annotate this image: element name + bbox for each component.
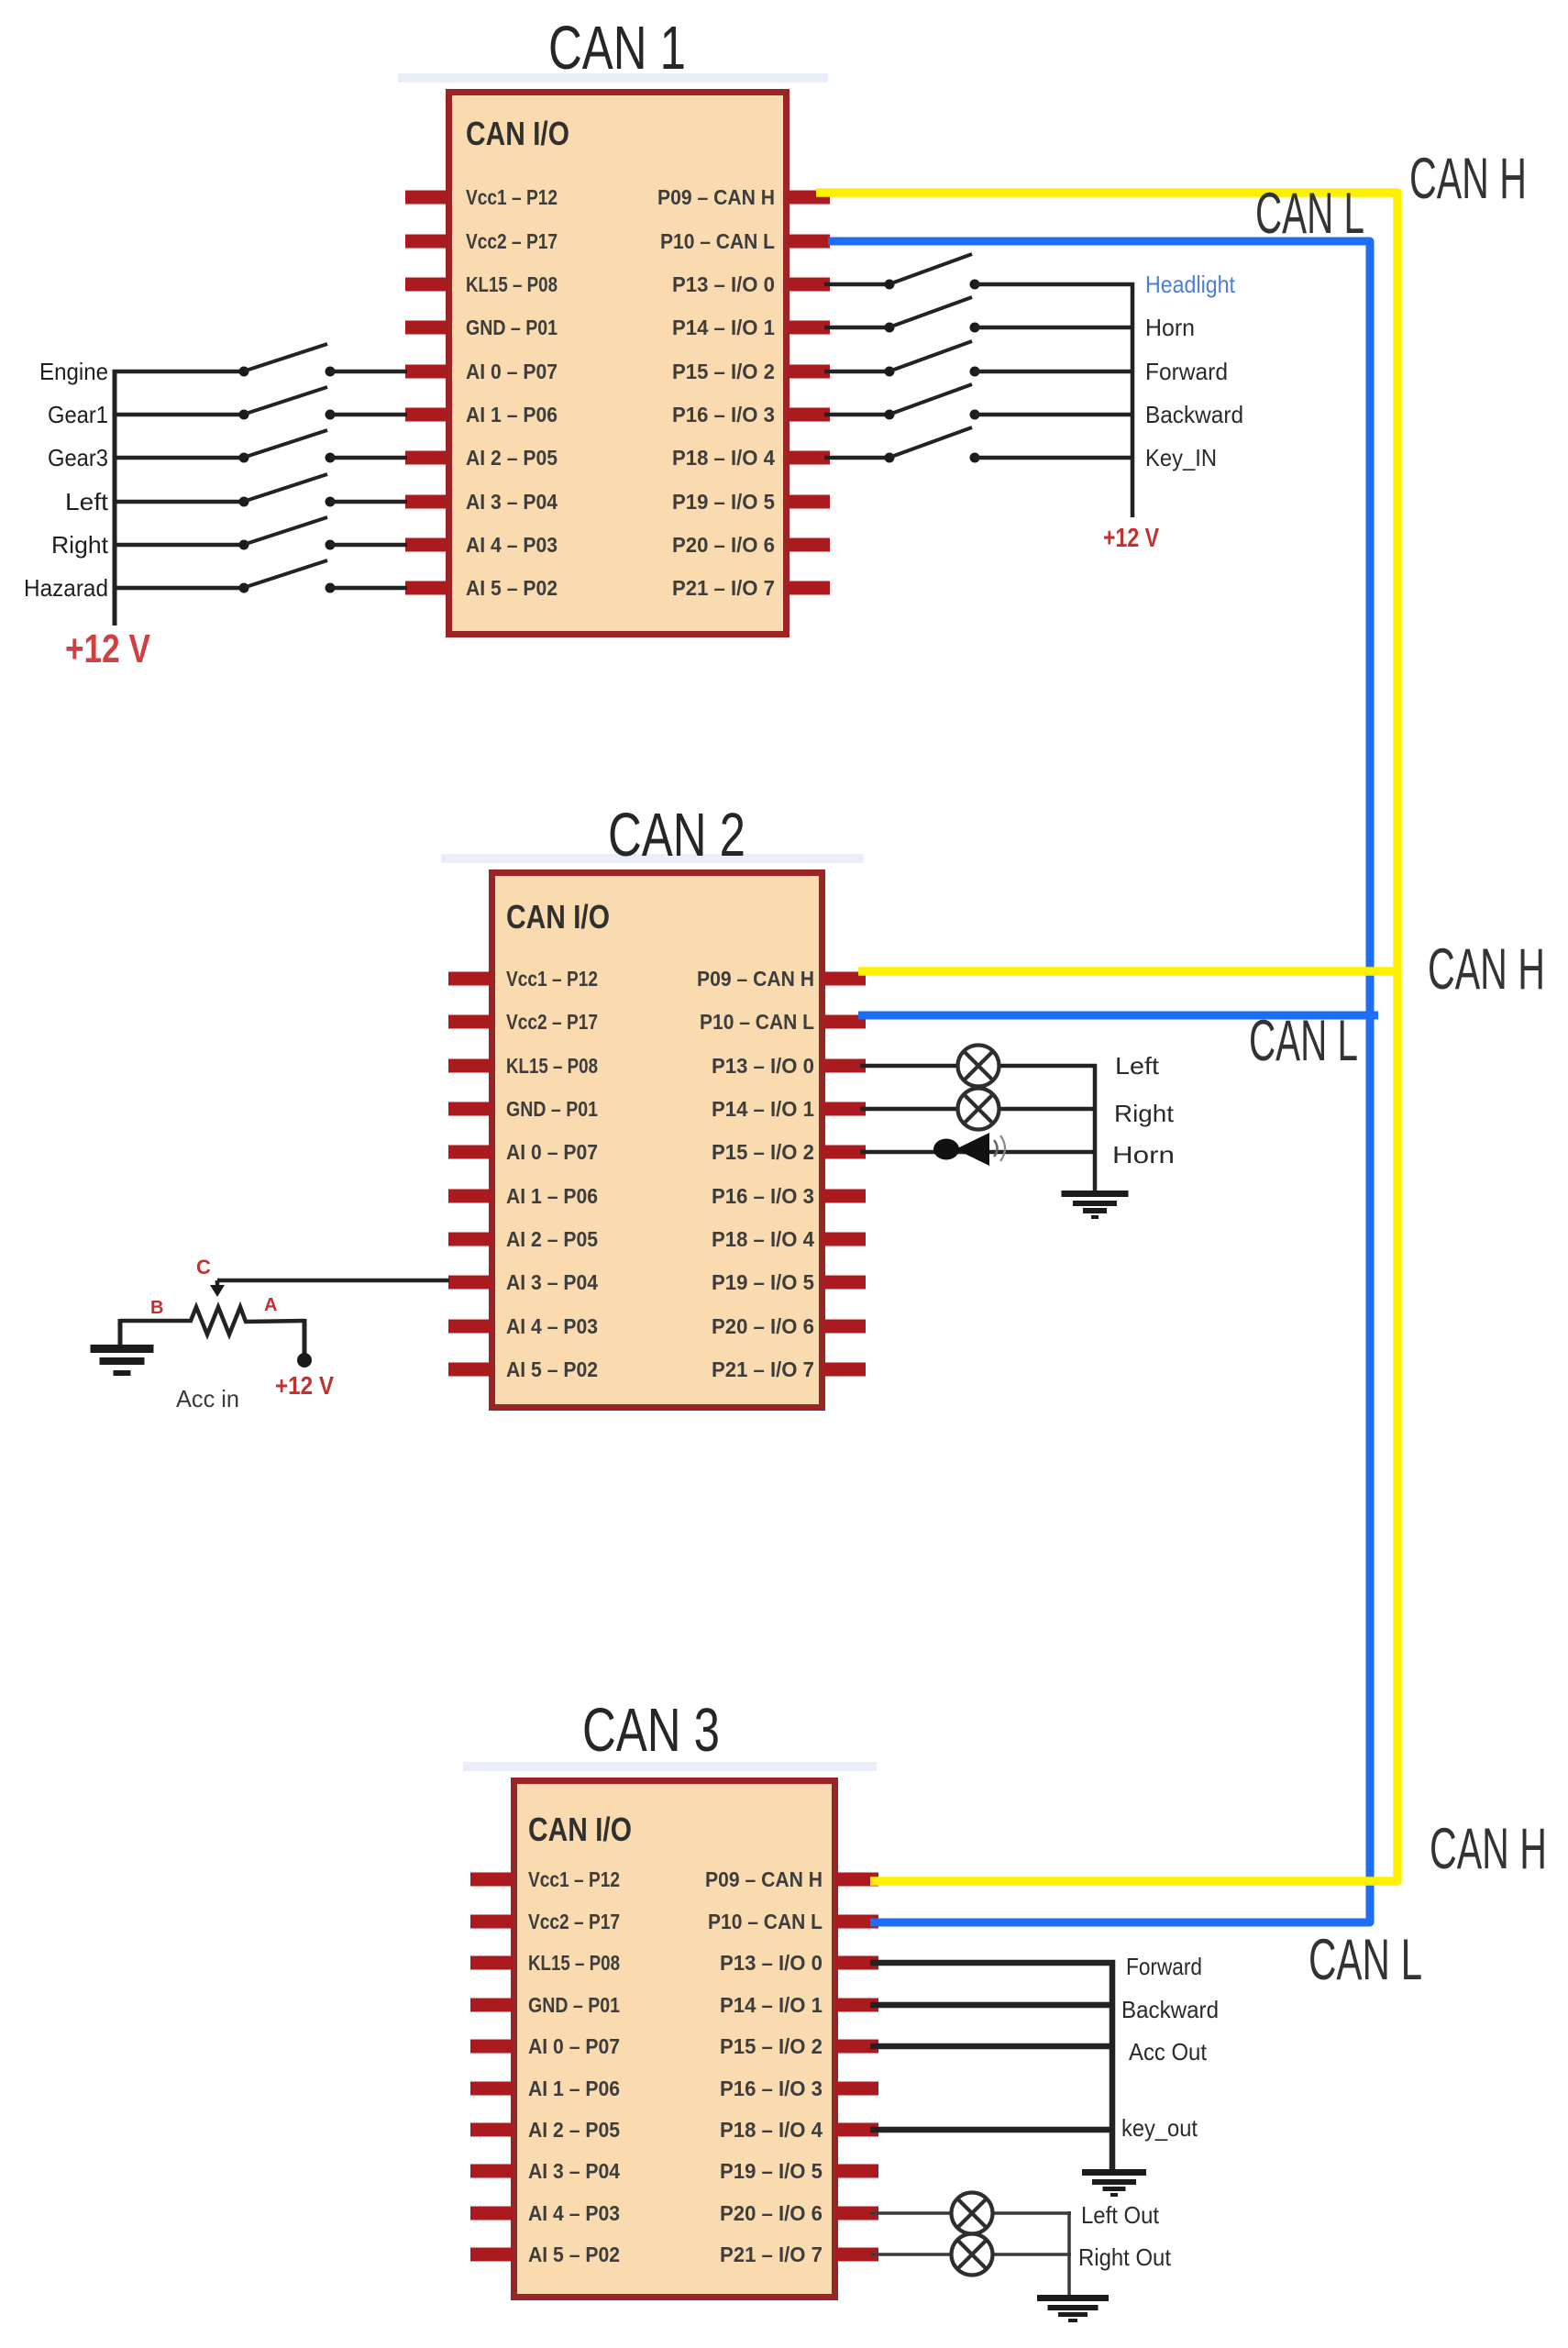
svg-text:AI 2 – P05: AI 2 – P05 bbox=[528, 2118, 620, 2142]
wire switch to Headlight bus bbox=[975, 282, 1134, 287]
wire CAN2 P14 to Right lamp and bus bbox=[860, 1107, 1097, 1112]
CAN 2 left pin AI 2 – P05 bbox=[448, 1227, 598, 1251]
svg-text:AI 5 – P02: AI 5 – P02 bbox=[528, 2243, 620, 2266]
svg-text:+12 V: +12 V bbox=[1103, 524, 1160, 553]
svg-text:CAN 3: CAN 3 bbox=[582, 1696, 720, 1765]
svg-text:P09 – CAN H: P09 – CAN H bbox=[705, 1867, 823, 1891]
svg-text:P13 – I/O 0: P13 – I/O 0 bbox=[720, 1951, 823, 1975]
CAN 1 right pin P09 – CAN H bbox=[657, 185, 830, 209]
svg-text:Hazarad: Hazarad bbox=[24, 574, 108, 602]
svg-text:Vcc1 – P12: Vcc1 – P12 bbox=[528, 1867, 620, 1891]
svg-text:P18 – I/O 4: P18 – I/O 4 bbox=[712, 1227, 814, 1251]
svg-text:P13 – I/O 0: P13 – I/O 0 bbox=[672, 272, 775, 296]
CAN 3 left pin KL15 – P08 bbox=[470, 1951, 620, 1975]
svg-text:P15 – I/O 2: P15 – I/O 2 bbox=[720, 2034, 823, 2058]
svg-text:P21 – I/O 7: P21 – I/O 7 bbox=[712, 1357, 814, 1381]
svg-text:CAN H: CAN H bbox=[1409, 147, 1527, 211]
svg-text:P10 – CAN L: P10 – CAN L bbox=[708, 1910, 823, 1933]
svg-text:+12 V: +12 V bbox=[275, 1371, 334, 1400]
svg-text:Gear3: Gear3 bbox=[48, 444, 108, 471]
node +12V feed vertical wire (right of CAN1) bbox=[1131, 282, 1135, 517]
CAN 1 left pin AI 0 – P07 bbox=[405, 360, 558, 383]
svg-text:key_out: key_out bbox=[1121, 2114, 1198, 2142]
selection highlight band above CAN 1 bbox=[398, 73, 828, 83]
svg-text:AI 2 – P05: AI 2 – P05 bbox=[466, 446, 558, 470]
potentiometer R1 (Acc in) zigzag bbox=[120, 1307, 304, 1335]
CAN 1 right pin P13 – I/O 0 bbox=[672, 272, 830, 296]
CAN 1 left pin AI 3 – P04 bbox=[405, 490, 558, 514]
svg-text:CAN L: CAN L bbox=[1255, 182, 1364, 246]
CAN 2 left pin Vcc1 – P12 bbox=[448, 967, 598, 991]
svg-text:Horn: Horn bbox=[1145, 314, 1195, 341]
IC CAN 3 body bbox=[514, 1781, 835, 2298]
svg-text:P14 – I/O 1: P14 – I/O 1 bbox=[712, 1097, 814, 1121]
svg-text:Vcc1 – P12: Vcc1 – P12 bbox=[506, 967, 598, 991]
svg-text:AI 3 – P04: AI 3 – P04 bbox=[466, 490, 558, 514]
CAN 3 left pin GND – P01 bbox=[470, 1993, 620, 2017]
svg-text:CAN I/O: CAN I/O bbox=[528, 1811, 632, 1848]
svg-text:AI 5 – P02: AI 5 – P02 bbox=[506, 1357, 598, 1381]
svg-text:Right: Right bbox=[1114, 1100, 1175, 1127]
lamp Right (indicator) bbox=[958, 1089, 999, 1130]
CAN 1 left pin GND – P01 bbox=[405, 316, 558, 339]
CAN 2 right pin P21 – I/O 7 bbox=[712, 1357, 866, 1381]
wire switch to Forward bus bbox=[975, 370, 1134, 374]
svg-text:Vcc2 – P17: Vcc2 – P17 bbox=[528, 1910, 620, 1933]
wire switch to pin AI 5 bbox=[330, 586, 407, 591]
svg-text:Vcc1 – P12: Vcc1 – P12 bbox=[466, 185, 558, 209]
svg-text:Headlight: Headlight bbox=[1145, 271, 1236, 298]
svg-text:P18 – I/O 4: P18 – I/O 4 bbox=[672, 446, 775, 470]
CAN 3 left pin AI 1 – P06 bbox=[470, 2077, 620, 2100]
CAN 2 left pin AI 4 – P03 bbox=[448, 1314, 598, 1338]
wire switch to Backward bus bbox=[975, 413, 1134, 417]
svg-text:AI 0 – P07: AI 0 – P07 bbox=[466, 360, 558, 383]
ground symbol (CAN2 lamps) bbox=[1062, 1191, 1129, 1219]
CAN 1 left pin KL15 – P08 bbox=[405, 272, 558, 296]
CAN 1 right pin P21 – I/O 7 bbox=[672, 576, 830, 600]
svg-text:P14 – I/O 1: P14 – I/O 1 bbox=[672, 316, 775, 339]
switch S1 (Engine) bbox=[239, 344, 336, 377]
wire CAN2 P13 to Left lamp and bus bbox=[860, 1064, 1097, 1069]
svg-text:CAN I/O: CAN I/O bbox=[506, 898, 610, 936]
svg-text:AI 1 – P06: AI 1 – P06 bbox=[466, 403, 558, 426]
wire CAN2 AI3-P04 to potentiometer wiper bbox=[217, 1279, 449, 1283]
svg-text:Horn: Horn bbox=[1112, 1141, 1175, 1168]
wire pin P14 to switch bbox=[824, 326, 889, 330]
svg-text:Forward: Forward bbox=[1126, 1953, 1202, 1980]
svg-text:AI 5 – P02: AI 5 – P02 bbox=[466, 576, 558, 600]
switch S2 (Gear1) bbox=[239, 387, 336, 420]
CAN 2 left pin AI 0 – P07 bbox=[448, 1140, 598, 1164]
svg-text:CAN H: CAN H bbox=[1428, 937, 1545, 1002]
svg-text:P09 – CAN H: P09 – CAN H bbox=[657, 185, 775, 209]
svg-text:P21 – I/O 7: P21 – I/O 7 bbox=[720, 2243, 823, 2266]
wire CAN3 output bus down to ground bbox=[1110, 1960, 1116, 2172]
CAN 1 left pin AI 2 – P05 bbox=[405, 446, 558, 470]
wire Gear3 to switch bbox=[113, 456, 244, 460]
wire CAN3 P21 to Right Out lamp and bus bbox=[870, 2253, 1071, 2256]
CAN 3 right pin P21 – I/O 7 bbox=[720, 2243, 878, 2266]
svg-text:AI 3 – P04: AI 3 – P04 bbox=[528, 2159, 620, 2183]
wire Left to switch bbox=[113, 500, 244, 504]
svg-text:KL15 – P08: KL15 – P08 bbox=[506, 1054, 598, 1078]
CAN 2 right pin P10 – CAN L bbox=[700, 1010, 866, 1034]
svg-text:P20 – I/O 6: P20 – I/O 6 bbox=[720, 2201, 823, 2225]
CAN 2 right pin P20 – I/O 6 bbox=[712, 1314, 866, 1338]
potentiometer wiper arrow (C) bbox=[210, 1280, 225, 1297]
IC CAN 1 body bbox=[449, 93, 787, 635]
lamp Left (indicator) bbox=[958, 1046, 999, 1087]
CAN 3 left pin AI 4 – P03 bbox=[470, 2201, 620, 2225]
svg-text:Engine: Engine bbox=[39, 358, 108, 385]
svg-text:C: C bbox=[196, 1256, 211, 1279]
svg-text:CAN 2: CAN 2 bbox=[608, 801, 745, 869]
svg-text:P14 – I/O 1: P14 – I/O 1 bbox=[720, 1993, 823, 2017]
CAN 2 left pin KL15 – P08 bbox=[448, 1054, 598, 1078]
CAN 1 right pin P20 – I/O 6 bbox=[672, 533, 830, 557]
CAN 1 right pin P18 – I/O 4 bbox=[672, 446, 830, 470]
CAN 3 left pin AI 3 – P04 bbox=[470, 2159, 620, 2183]
CAN 2 right pin P15 – I/O 2 bbox=[712, 1140, 866, 1164]
CAN 1 right pin P10 – CAN L bbox=[660, 229, 830, 253]
svg-text:Acc Out: Acc Out bbox=[1129, 2038, 1208, 2066]
CAN 2 right pin P16 – I/O 3 bbox=[712, 1184, 866, 1208]
CAN 1 right pin P15 – I/O 2 bbox=[672, 360, 830, 383]
wire switch to Horn bus bbox=[975, 326, 1134, 330]
wire CAN L branch to CAN2 P10 bbox=[858, 1012, 1378, 1020]
wire pin P13 to switch bbox=[824, 282, 889, 287]
CAN 3 left pin Vcc2 – P17 bbox=[470, 1910, 620, 1933]
switch S10 (Backward) bbox=[885, 384, 980, 420]
switch S9 (Forward) bbox=[885, 341, 980, 377]
CAN 2 right pin P19 – I/O 5 bbox=[712, 1270, 866, 1294]
switch S7 (Headlight) bbox=[885, 254, 980, 290]
svg-text:Right: Right bbox=[51, 531, 109, 559]
svg-text:CAN L: CAN L bbox=[1309, 1928, 1422, 1992]
CAN 3 right pin P13 – I/O 0 bbox=[720, 1951, 878, 1975]
svg-text:Forward: Forward bbox=[1145, 358, 1228, 385]
switch S4 (Left) bbox=[239, 474, 336, 507]
svg-text:P21 – I/O 7: P21 – I/O 7 bbox=[672, 576, 775, 600]
svg-text:CAN H: CAN H bbox=[1430, 1817, 1547, 1881]
svg-text:P16 – I/O 3: P16 – I/O 3 bbox=[720, 2077, 823, 2100]
svg-text:CAN 1: CAN 1 bbox=[548, 14, 686, 83]
CAN 1 right pin P14 – I/O 1 bbox=[672, 316, 830, 339]
CAN 2 left pin AI 1 – P06 bbox=[448, 1184, 598, 1208]
svg-text:P10 – CAN L: P10 – CAN L bbox=[700, 1010, 814, 1034]
CAN 2 right pin P09 – CAN H bbox=[697, 967, 866, 991]
CAN 2 right pin P18 – I/O 4 bbox=[712, 1227, 866, 1251]
wire switch to pin AI 4 bbox=[330, 543, 407, 548]
wire CAN H branch to CAN2 P09 bbox=[858, 967, 1402, 976]
svg-text:Right Out: Right Out bbox=[1078, 2243, 1172, 2271]
CAN 1 left pin Vcc2 – P17 bbox=[405, 229, 558, 253]
svg-text:Key_IN: Key_IN bbox=[1145, 444, 1217, 471]
svg-text:AI 4 – P03: AI 4 – P03 bbox=[466, 533, 558, 557]
horn / buzzer symbol bbox=[933, 1133, 1005, 1166]
svg-text:CAN L: CAN L bbox=[1249, 1009, 1358, 1073]
CAN 3 right pin P18 – I/O 4 bbox=[720, 2118, 878, 2142]
svg-text:Backward: Backward bbox=[1121, 1996, 1219, 2023]
wire Gear1 to switch bbox=[113, 413, 244, 417]
wire switch to Key_IN bus bbox=[975, 456, 1134, 460]
svg-text:AI 1 – P06: AI 1 – P06 bbox=[506, 1184, 598, 1208]
ground symbol (CAN3 outputs) bbox=[1082, 2169, 1146, 2197]
svg-text:P15 – I/O 2: P15 – I/O 2 bbox=[712, 1140, 814, 1164]
wire switch to pin AI 2 bbox=[330, 456, 407, 460]
wire Right to switch bbox=[113, 543, 244, 548]
svg-text:P16 – I/O 3: P16 – I/O 3 bbox=[672, 403, 775, 426]
wire CAN3 P18 key_out bbox=[870, 2127, 1115, 2133]
svg-text:P18 – I/O 4: P18 – I/O 4 bbox=[720, 2118, 823, 2142]
svg-text:Acc in: Acc in bbox=[176, 1385, 239, 1412]
svg-text:Vcc2 – P17: Vcc2 – P17 bbox=[506, 1010, 598, 1034]
wire CAN H bus (yellow): CAN1 P09 right, down, into CAN3 P09 bbox=[816, 193, 1397, 1881]
CAN 3 left pin AI 0 – P07 bbox=[470, 2034, 620, 2058]
IC CAN 2 body bbox=[492, 873, 823, 1408]
svg-text:P13 – I/O 0: P13 – I/O 0 bbox=[712, 1054, 814, 1078]
svg-text:Left: Left bbox=[1115, 1052, 1160, 1080]
lamp Right Out bbox=[952, 2234, 993, 2276]
selection highlight band above CAN 3 bbox=[463, 1762, 877, 1771]
CAN 2 right pin P14 – I/O 1 bbox=[712, 1097, 866, 1121]
svg-text:B: B bbox=[150, 1298, 163, 1318]
CAN 2 left pin GND – P01 bbox=[448, 1097, 598, 1121]
CAN 1 left pin Vcc1 – P12 bbox=[405, 185, 558, 209]
ground symbol (CAN3 lamps) bbox=[1037, 2295, 1109, 2322]
svg-text:GND – P01: GND – P01 bbox=[528, 1993, 620, 2017]
CAN 3 right pin P14 – I/O 1 bbox=[720, 1993, 878, 2017]
node +12V feed vertical wire (left of CAN1) bbox=[113, 370, 117, 626]
CAN 2 left pin AI 3 – P04 bbox=[448, 1270, 598, 1294]
CAN 2 left pin AI 5 – P02 bbox=[448, 1357, 598, 1381]
wire pot B terminal down to ground bbox=[118, 1319, 123, 1346]
svg-text:Backward: Backward bbox=[1145, 401, 1243, 428]
ground symbol (pot B) bbox=[91, 1345, 154, 1376]
wire Hazarad to switch bbox=[113, 586, 244, 591]
CAN 3 right pin P15 – I/O 2 bbox=[720, 2034, 878, 2058]
svg-text:GND – P01: GND – P01 bbox=[506, 1097, 598, 1121]
wire CAN3 P15 Acc Out bbox=[870, 2043, 1115, 2050]
CAN 2 right pin P13 – I/O 0 bbox=[712, 1054, 866, 1078]
svg-text:+12 V: +12 V bbox=[65, 626, 151, 671]
wire CAN3 P14 Backward bbox=[870, 2002, 1115, 2009]
CAN 3 left pin AI 5 – P02 bbox=[470, 2243, 620, 2266]
switch S5 (Right) bbox=[239, 517, 336, 550]
wire CAN2 P15 to horn and bus bbox=[860, 1150, 1097, 1155]
svg-text:P10 – CAN L: P10 – CAN L bbox=[660, 229, 775, 253]
svg-text:GND – P01: GND – P01 bbox=[466, 316, 558, 339]
CAN 3 left pin AI 2 – P05 bbox=[470, 2118, 620, 2142]
switch S3 (Gear3) bbox=[239, 430, 336, 463]
svg-text:AI 1 – P06: AI 1 – P06 bbox=[528, 2077, 620, 2100]
svg-text:P15 – I/O 2: P15 – I/O 2 bbox=[672, 360, 775, 383]
svg-text:P09 – CAN H: P09 – CAN H bbox=[697, 967, 814, 991]
switch S6 (Hazarad) bbox=[239, 560, 336, 593]
svg-text:P19 – I/O 5: P19 – I/O 5 bbox=[672, 490, 775, 514]
CAN 3 left pin Vcc1 – P12 bbox=[470, 1867, 620, 1891]
wire switch to pin AI 3 bbox=[330, 500, 407, 504]
CAN 1 left pin AI 4 – P03 bbox=[405, 533, 558, 557]
wire CAN3 lamps bus down to ground bbox=[1067, 2211, 1071, 2297]
node +12V terminal dot bbox=[297, 1353, 312, 1368]
svg-text:Left Out: Left Out bbox=[1081, 2201, 1160, 2229]
svg-text:AI 0 – P07: AI 0 – P07 bbox=[506, 1140, 598, 1164]
svg-text:P20 – I/O 6: P20 – I/O 6 bbox=[672, 533, 775, 557]
wire CAN3 P20 to Left Out lamp and bus bbox=[870, 2211, 1071, 2215]
CAN 3 right pin P19 – I/O 5 bbox=[720, 2159, 878, 2183]
svg-text:Gear1: Gear1 bbox=[48, 401, 108, 428]
wire Engine to switch bbox=[113, 370, 244, 374]
switch S8 (Horn) bbox=[885, 297, 980, 333]
lamp Left Out bbox=[952, 2193, 993, 2234]
svg-text:KL15 – P08: KL15 – P08 bbox=[466, 272, 558, 296]
CAN 3 right pin P09 – CAN H bbox=[705, 1867, 878, 1891]
wire switch to pin AI 1 bbox=[330, 413, 407, 417]
CAN 1 left pin AI 5 – P02 bbox=[405, 576, 558, 600]
wire CAN2 lamp bus down to ground bbox=[1093, 1064, 1098, 1192]
svg-text:P16 – I/O 3: P16 – I/O 3 bbox=[712, 1184, 814, 1208]
svg-text:AI 2 – P05: AI 2 – P05 bbox=[506, 1227, 598, 1251]
wire pin P15 to switch bbox=[824, 370, 889, 374]
svg-text:AI 4 – P03: AI 4 – P03 bbox=[528, 2201, 620, 2225]
wire CAN L bus (blue): CAN1 P10 right, down, into CAN3 P10 bbox=[828, 241, 1370, 1922]
svg-text:P20 – I/O 6: P20 – I/O 6 bbox=[712, 1314, 814, 1338]
CAN 3 right pin P10 – CAN L bbox=[708, 1910, 878, 1933]
svg-text:AI 3 – P04: AI 3 – P04 bbox=[506, 1270, 598, 1294]
wire pin P18 to switch bbox=[824, 456, 889, 460]
CAN 1 left pin AI 1 – P06 bbox=[405, 403, 558, 426]
svg-text:KL15 – P08: KL15 – P08 bbox=[528, 1951, 620, 1975]
svg-text:CAN I/O: CAN I/O bbox=[466, 115, 569, 152]
CAN 3 right pin P16 – I/O 3 bbox=[720, 2077, 878, 2100]
CAN 2 left pin Vcc2 – P17 bbox=[448, 1010, 598, 1034]
svg-text:P19 – I/O 5: P19 – I/O 5 bbox=[720, 2159, 823, 2183]
svg-text:AI 4 – P03: AI 4 – P03 bbox=[506, 1314, 598, 1338]
selection highlight band above CAN 2 bbox=[441, 854, 864, 863]
svg-text:Vcc2 – P17: Vcc2 – P17 bbox=[466, 229, 558, 253]
wire switch to pin AI 0 bbox=[330, 370, 407, 374]
svg-text:AI 0 – P07: AI 0 – P07 bbox=[528, 2034, 620, 2058]
svg-text:P19 – I/O 5: P19 – I/O 5 bbox=[712, 1270, 814, 1294]
svg-text:A: A bbox=[264, 1295, 277, 1315]
svg-text:Left: Left bbox=[65, 488, 109, 515]
CAN 3 right pin P20 – I/O 6 bbox=[720, 2201, 878, 2225]
CAN 1 right pin P16 – I/O 3 bbox=[672, 403, 830, 426]
CAN 1 right pin P19 – I/O 5 bbox=[672, 490, 830, 514]
wire pot A terminal down to +12V node bbox=[303, 1319, 307, 1357]
switch S11 (Key_IN) bbox=[885, 427, 980, 463]
wire pin P16 to switch bbox=[824, 413, 889, 417]
wire CAN3 P13 Forward bbox=[870, 1960, 1115, 1966]
